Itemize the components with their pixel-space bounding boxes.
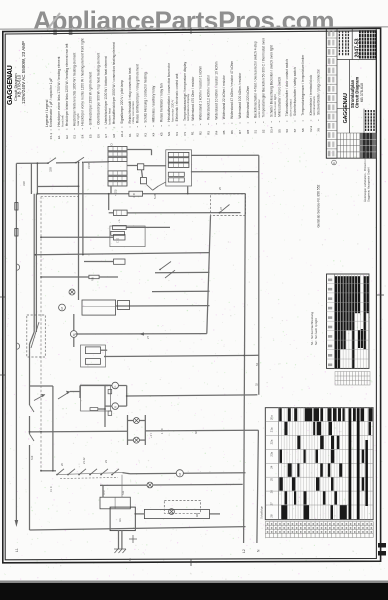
svg-text:=: =	[112, 126, 116, 128]
address dense block	[366, 110, 374, 132]
svg-text:S6: S6	[285, 129, 289, 133]
svg-text:Widerstand 22 kOhm / resistor: Widerstand 22 kOhm / resistor	[222, 74, 226, 119]
relay enclosure K2	[110, 226, 145, 247]
svg-text:‹ 1›: ‹ 1›	[118, 219, 121, 223]
heater element stack E3-E4 (lower group)	[108, 171, 127, 186]
svg-text:K3: K3	[144, 133, 148, 137]
svg-text:=: =	[269, 121, 273, 123]
svg-text:R6: R6	[230, 130, 234, 134]
wire out of wide box	[209, 513, 220, 515]
lamp H1 (cross circle)	[69, 289, 75, 295]
svg-text:Änderungen vorbehalten · Print: Änderungen vorbehalten · Printed in Germ…	[363, 148, 367, 202]
svg-text:180: 180	[196, 512, 199, 517]
svg-text:S11: S11	[122, 490, 125, 495]
wire stack2 top out	[191, 154, 259, 156]
switch column x52.9	[52, 386, 54, 471]
svg-text:=: =	[104, 127, 108, 129]
bottom scan bar	[0, 583, 388, 600]
svg-text:=: =	[136, 125, 140, 127]
svg-text:=: =	[159, 125, 163, 127]
svg-text:switch oven light: switch oven light	[273, 94, 277, 117]
wire to 9 6	[84, 261, 114, 263]
svg-text:C1 D: C1 D	[50, 486, 53, 492]
switch contact on row y253	[160, 262, 171, 270]
svg-text:=: =	[230, 122, 234, 124]
arrow mark 27	[139, 332, 144, 335]
svg-text:R5: R5	[222, 130, 226, 134]
svg-text:fan motor 220 V: fan motor 220 V	[170, 99, 174, 122]
wire row y291	[152, 290, 210, 292]
wire row y485	[100, 484, 147, 486]
revision strip	[326, 29, 337, 158]
title block outline	[326, 29, 376, 158]
svg-text:=: =	[285, 120, 289, 122]
wire	[153, 483, 243, 486]
svg-text:24: 24	[270, 465, 274, 469]
svg-text:27: 27	[146, 336, 150, 339]
svg-text:S3.4: S3.4	[269, 127, 273, 134]
wire	[183, 472, 245, 474]
svg-text:=: =	[88, 127, 92, 129]
wire stubs up	[102, 485, 104, 497]
wire top feed horizontal	[16, 162, 48, 164]
approval grid dark cells	[360, 133, 376, 158]
svg-text:=: =	[293, 120, 297, 122]
wire jump-over 2 on L1 bus	[16, 343, 19, 349]
svg-text:21a: 21a	[270, 427, 274, 432]
svg-text:=: =	[183, 124, 187, 126]
svg-text:25: 25	[270, 477, 274, 481]
svg-text:C 8: C 8	[132, 193, 136, 198]
svg-text:Oberhitzekörper 900 W / top he: Oberhitzekörper 900 W / top heat heating…	[96, 53, 100, 125]
svg-text:=: =	[222, 122, 226, 124]
pilot circle R	[112, 403, 119, 410]
switch contacts near stack2	[146, 185, 152, 191]
wire bottom bus	[30, 527, 246, 530]
sub wire y186	[37, 185, 79, 187]
svg-text:Gerät ab Service-Nr. 856 552: Gerät ab Service-Nr. 856 552	[317, 184, 321, 227]
svg-text:21 22: 21 22	[82, 457, 86, 464]
svg-text:R: R	[113, 406, 117, 408]
svg-text:Sicherheitsschalter / safety s: Sicherheitsschalter / safety switch	[293, 67, 297, 116]
lamp pair rail left	[127, 415, 129, 445]
svg-text:E5: E5	[88, 134, 92, 138]
lamp in dashed box	[169, 509, 175, 515]
svg-text:oven selector: oven selector	[257, 99, 261, 117]
stack1 side rails	[107, 149, 109, 184]
resistor at left	[90, 408, 98, 411]
approval grid	[337, 133, 376, 158]
main bus y431 left	[30, 430, 128, 433]
svg-text:relay convection: relay convection	[131, 101, 135, 124]
svg-text:S2 : S2 nach tp light: S2 : S2 nach tp light	[314, 318, 318, 345]
boxes pair under 1 32	[113, 225, 127, 229]
selector switch contacts 20-25	[56, 469, 119, 476]
svg-text:Temperaturbegrenzer / temperat: Temperaturbegrenzer / temperature limite…	[301, 54, 305, 116]
riser from S7 box	[207, 216, 211, 334]
svg-text:K1: K1	[128, 133, 132, 137]
wire stack2 bottom drop	[187, 186, 189, 193]
relay contact arrow	[58, 392, 70, 400]
vertical feeder x82.9	[82, 162, 84, 254]
wire stack1 to R1	[127, 165, 137, 167]
wire stack1 top link	[127, 149, 152, 151]
registered mark	[332, 160, 337, 165]
svg-text:E7: E7	[104, 134, 108, 138]
wire main row y194	[37, 193, 128, 195]
bottom scan bar soft edge	[0, 581, 388, 585]
svg-text:Widerstand 470 Ohm / resistor: Widerstand 470 Ohm / resistor	[191, 76, 195, 121]
wire lamp row y474	[130, 472, 176, 474]
control unit U1 box	[110, 507, 135, 530]
svg-text:32B: 32B	[49, 167, 53, 172]
svg-text:K5: K5	[159, 132, 163, 136]
svg-text:‹ 2 ×: ‹ 2 ×	[149, 432, 153, 438]
svg-text:terminal block: terminal block	[312, 96, 316, 116]
resistor R2 vertical	[141, 178, 147, 184]
pilot circle P	[112, 382, 119, 389]
lamp cross circle	[147, 482, 153, 488]
wire to C32	[41, 236, 114, 238]
staple marks right edge	[378, 543, 386, 548]
svg-text:26: 26	[270, 490, 274, 494]
svg-text:R8: R8	[246, 130, 250, 134]
stack1 side connection	[110, 186, 112, 194]
svg-text:GAGGENAU: GAGGENAU	[343, 93, 349, 123]
lamp E-a	[133, 418, 139, 424]
svg-text:=: =	[128, 126, 132, 128]
node 32B branch vertical	[36, 163, 38, 194]
main bus y431 right	[145, 429, 258, 432]
bus jog	[30, 332, 35, 344]
svg-text:E6: E6	[96, 134, 100, 138]
wide component box	[144, 509, 209, 518]
wire row y306	[116, 305, 210, 307]
U1 ground wires	[118, 531, 120, 549]
wire row y272	[155, 271, 210, 273]
svg-text:S5: S5	[277, 129, 281, 133]
svg-text:27: 27	[270, 502, 274, 506]
svg-text:Circuit Diagram: Circuit Diagram	[355, 77, 360, 108]
relay enclosure K4	[81, 345, 106, 367]
ground hatch	[114, 549, 126, 553]
junction dots	[29, 185, 137, 514]
sub rail right	[126, 386, 128, 407]
svg-text:=: =	[317, 119, 321, 121]
svg-text:=: =	[120, 126, 124, 128]
svg-text:L1: L1	[15, 548, 19, 552]
svg-text:door contact: door contact	[289, 99, 293, 116]
divider below top block	[337, 59, 376, 61]
svg-text:=: =	[238, 122, 242, 124]
branch bus (double line)	[33, 194, 35, 332]
table B footer digit speckle	[267, 523, 372, 533]
dashed enclosure around lamp	[164, 500, 200, 513]
svg-text:28: 28	[270, 514, 274, 518]
svg-text:=: =	[57, 128, 61, 130]
svg-text:=: =	[144, 125, 148, 127]
dashed link y196	[41, 195, 79, 197]
svg-text:Hilfsrelais / auxiliary relay: Hilfsrelais / auxiliary relay	[151, 85, 155, 122]
switch S1b contact	[76, 157, 84, 162]
svg-text:Relais Ventilator / relay fan: Relais Ventilator / relay fan	[159, 83, 163, 122]
svg-text:R: R	[332, 162, 336, 164]
table B: main switch sequence chart	[265, 408, 373, 520]
divider	[349, 60, 351, 134]
node L1 supply bus (left vertical)	[15, 163, 17, 522]
svg-text:Grillheizkörper 2300 W / grill: Grillheizkörper 2300 W / grill element	[88, 72, 92, 125]
motor M3 circle	[176, 470, 183, 477]
svg-text:E2: E2	[65, 135, 69, 139]
svg-text:K4: K4	[151, 132, 155, 136]
title block mid small text rows	[339, 31, 348, 57]
N riser lower	[257, 430, 259, 543]
diode D2 box	[108, 411, 112, 415]
motor M2 circle	[70, 331, 77, 338]
svg-text:M1: M1	[167, 131, 171, 135]
motor M1 circle	[59, 304, 66, 311]
svg-text:K2: K2	[136, 133, 140, 137]
svg-text:=: =	[167, 124, 171, 126]
wire stack2 out	[191, 171, 259, 173]
relay K1 box	[82, 300, 116, 315]
svg-text:Relais Grillheizkörper / relay: Relais Grillheizkörper / relay grill ele…	[136, 64, 140, 123]
svg-text:Widerstand 47 kOhm / resistor: Widerstand 47 kOhm / resistor 47 kOhm	[230, 61, 234, 119]
vertical feeder x78.5	[78, 162, 80, 300]
svg-text:X8: X8	[317, 128, 321, 132]
svg-text:318: 318	[22, 181, 26, 186]
svg-text:C1.3: C1.3	[49, 133, 53, 140]
svg-text:Widerstand 10 kOhm / resistor: Widerstand 10 kOhm / resistor 10 kOhm	[214, 61, 218, 119]
box 11 15	[85, 359, 100, 365]
wire	[101, 349, 108, 351]
svg-text:R7: R7	[238, 130, 242, 134]
dashed enclosure S6	[27, 315, 46, 357]
svg-text:Mikroschalter / micro switch: Mikroschalter / micro switch	[277, 77, 281, 117]
switch S1a contact	[48, 158, 56, 163]
resistor R1 vertical	[137, 164, 143, 170]
svg-text:Elektronik / electronic contro: Elektronik / electronic control unit	[175, 74, 179, 122]
svg-text:Temperaturregler Backofen 50-3: Temperaturregler Backofen 50-300 C / the…	[262, 38, 266, 118]
svg-text:=: =	[254, 121, 258, 123]
L1 arrowhead	[15, 520, 19, 527]
fuse F2 on L1 bus	[15, 229, 18, 237]
svg-text:=: =	[175, 124, 179, 126]
wire M2 drop	[73, 314, 75, 331]
wire	[56, 162, 76, 164]
svg-text:E1: E1	[57, 135, 61, 139]
box 21 32	[85, 347, 100, 354]
svg-text:=: =	[301, 120, 305, 122]
svg-text:Heizkörper hinten links 1200 W: Heizkörper hinten links 1200 W / heating…	[65, 43, 69, 126]
dashed enclosure S7	[210, 194, 245, 216]
svg-text:L2: L2	[242, 549, 246, 553]
legend entries (rotated columns)	[49, 38, 321, 139]
table A: contact sequence chart (upper)	[327, 274, 370, 368]
branch vertical x31	[30, 163, 32, 194]
svg-text:Signallampe 220 V / pilot lamp: Signallampe 220 V / pilot lamp	[120, 80, 124, 124]
svg-text:Heizkörper vorne rechts 1200 W: Heizkörper vorne rechts 1200 W / heating…	[81, 38, 85, 125]
plus mark	[129, 538, 137, 540]
bus lower section	[29, 344, 31, 405]
svg-text:=: =	[207, 123, 211, 125]
svg-text:20a: 20a	[270, 415, 274, 420]
svg-text:× 32B: × 32B	[115, 189, 118, 196]
svg-text:Steckverbinder / plug connecto: Steckverbinder / plug connector	[317, 68, 321, 115]
svg-text:KB 378-610: KB 378-610	[360, 83, 364, 102]
selector switch row line	[41, 470, 56, 472]
svg-text:=: =	[73, 128, 77, 130]
K1 inner divider	[82, 305, 116, 307]
N riser upper	[258, 155, 260, 395]
svg-text:=: =	[309, 119, 313, 121]
fuse F1 on L1 bus	[15, 203, 18, 211]
K1 side box	[118, 301, 130, 310]
svg-text:E4: E4	[81, 134, 85, 138]
wire long row y253	[35, 253, 209, 255]
heater elements E5-E8	[168, 152, 189, 182]
svg-text:317B: 317B	[87, 163, 91, 169]
switch S7 contact inside	[220, 205, 230, 213]
diode D1 box	[108, 389, 112, 393]
svg-text:=: =	[191, 124, 195, 126]
svg-text:=: =	[199, 123, 203, 125]
svg-text:H1.2: H1.2	[120, 131, 124, 138]
wire between contacts	[57, 473, 123, 475]
terminal box pair	[100, 497, 130, 509]
paper corner fold mark	[47, 13, 60, 30]
svg-text:=: =	[151, 125, 155, 127]
svg-text:=: =	[65, 128, 69, 130]
svg-text:Widerstand 2,2 kOhm / resistor: Widerstand 2,2 kOhm / resistor	[207, 74, 211, 120]
svg-text:37: 37	[219, 207, 223, 210]
wire jump-over on L1 bus	[16, 264, 19, 270]
svg-text:S10: S10	[31, 455, 34, 460]
svg-text:R4: R4	[214, 130, 218, 134]
svg-text:bottom heat: bottom heat	[107, 108, 111, 124]
box 1 32 (thermal link)	[108, 194, 110, 210]
svg-text:=: =	[262, 121, 266, 123]
title block top dense text rows	[360, 30, 376, 58]
lamp pair rail right	[144, 415, 146, 445]
svg-text:Widerstand 100 kOhm / resistor: Widerstand 100 kOhm / resistor	[238, 72, 242, 119]
svg-text:E3: E3	[73, 135, 77, 139]
paper edge line	[0, 27, 388, 29]
svg-text:Schütz Heizung / contactor hea: Schütz Heizung / contactor heating	[144, 72, 148, 123]
wire from C8 to L2 riser	[143, 193, 246, 195]
resistor R8	[89, 275, 99, 279]
svg-text:R 8: R 8	[92, 277, 95, 281]
svg-text:S1: S1	[254, 129, 258, 133]
svg-text:S2: S2	[262, 129, 266, 133]
capacitor C8 box	[129, 191, 143, 196]
lamp E-b	[133, 437, 139, 443]
svg-text:Schaltfolge: Schaltfolge	[260, 506, 264, 519]
svg-text:C 32: C 32	[117, 237, 120, 243]
svg-text:P1: P1	[183, 131, 187, 135]
wire to heater stack E1	[84, 161, 109, 163]
svg-text:=: =	[49, 129, 53, 131]
svg-text:S7: S7	[293, 128, 297, 132]
svg-text:N1: N1	[175, 132, 179, 136]
svg-text:R3: R3	[207, 131, 211, 135]
table A footer grid	[335, 372, 370, 386]
svg-text:rear right: rear right	[76, 113, 80, 126]
wire bus y396	[127, 395, 258, 396]
switch contact 2	[165, 270, 175, 278]
svg-text:front left: front left	[60, 115, 64, 126]
lamp pair stubs	[128, 420, 134, 422]
svg-text:=: =	[246, 122, 250, 124]
svg-text:=: =	[96, 127, 100, 129]
dashed coupling line	[60, 478, 118, 479]
switch S6 long contact	[31, 322, 39, 348]
svg-text:temperature display: temperature display	[186, 93, 190, 121]
svg-text:E8: E8	[112, 133, 116, 137]
svg-text:U1: U1	[118, 518, 122, 522]
svg-text:Gaggenau Hausgeräte GmbH: Gaggenau Hausgeräte GmbH	[367, 167, 371, 202]
wire row y213	[127, 212, 240, 214]
switch contact on bus 2	[30, 434, 35, 441]
table B footer grid	[265, 522, 373, 538]
coupling line x41 (dashed)	[40, 197, 42, 471]
box 9 6	[114, 259, 126, 264]
svg-text:22a: 22a	[270, 439, 274, 444]
wire k2 row	[126, 226, 170, 228]
wire riser to P circle	[70, 391, 80, 393]
relay enclosure K5	[81, 385, 111, 411]
L2 riser vertical	[244, 194, 246, 543]
svg-text:Widerstand 220 kOhm: Widerstand 220 kOhm	[246, 86, 250, 119]
svg-text:=: =	[81, 127, 85, 129]
capacitor C32 box	[114, 235, 126, 241]
svg-text:S8: S8	[301, 128, 305, 132]
sub rail	[104, 386, 106, 428]
switch row out	[123, 473, 131, 474]
switch contact on bus	[30, 405, 35, 412]
wire row y356	[104, 355, 259, 356]
svg-text:X2.3: X2.3	[309, 125, 313, 132]
svg-text:Widerstand 1 kOhm / resistor 1: Widerstand 1 kOhm / resistor 1 kOhm	[199, 66, 203, 121]
branch to switch column	[30, 385, 53, 387]
wire row y334	[75, 333, 206, 335]
svg-text:Kondensator 1 µF / capacitor 1: Kondensator 1 µF / capacitor 1 µF	[49, 78, 53, 127]
heater element stack E5-E8 enclosure	[166, 150, 192, 186]
svg-text:120V/240V AC 5500W, 23 AMP: 120V/240V AC 5500W, 23 AMP	[21, 41, 26, 104]
svg-text:=: =	[214, 123, 218, 125]
heater element stack E1-E2 (upper group)	[108, 147, 127, 162]
svg-text:23a: 23a	[270, 451, 274, 456]
svg-text:Heissluftheizkörper 2500 W / c: Heissluftheizkörper 2500 W / convection …	[112, 42, 116, 124]
svg-text:=: =	[277, 120, 281, 122]
svg-text:P: P	[113, 386, 117, 388]
svg-text:R2: R2	[199, 131, 203, 135]
wire R1 to stack2	[144, 165, 166, 167]
relay contact arrow 2	[34, 395, 45, 401]
svg-text:R1: R1	[191, 131, 195, 135]
